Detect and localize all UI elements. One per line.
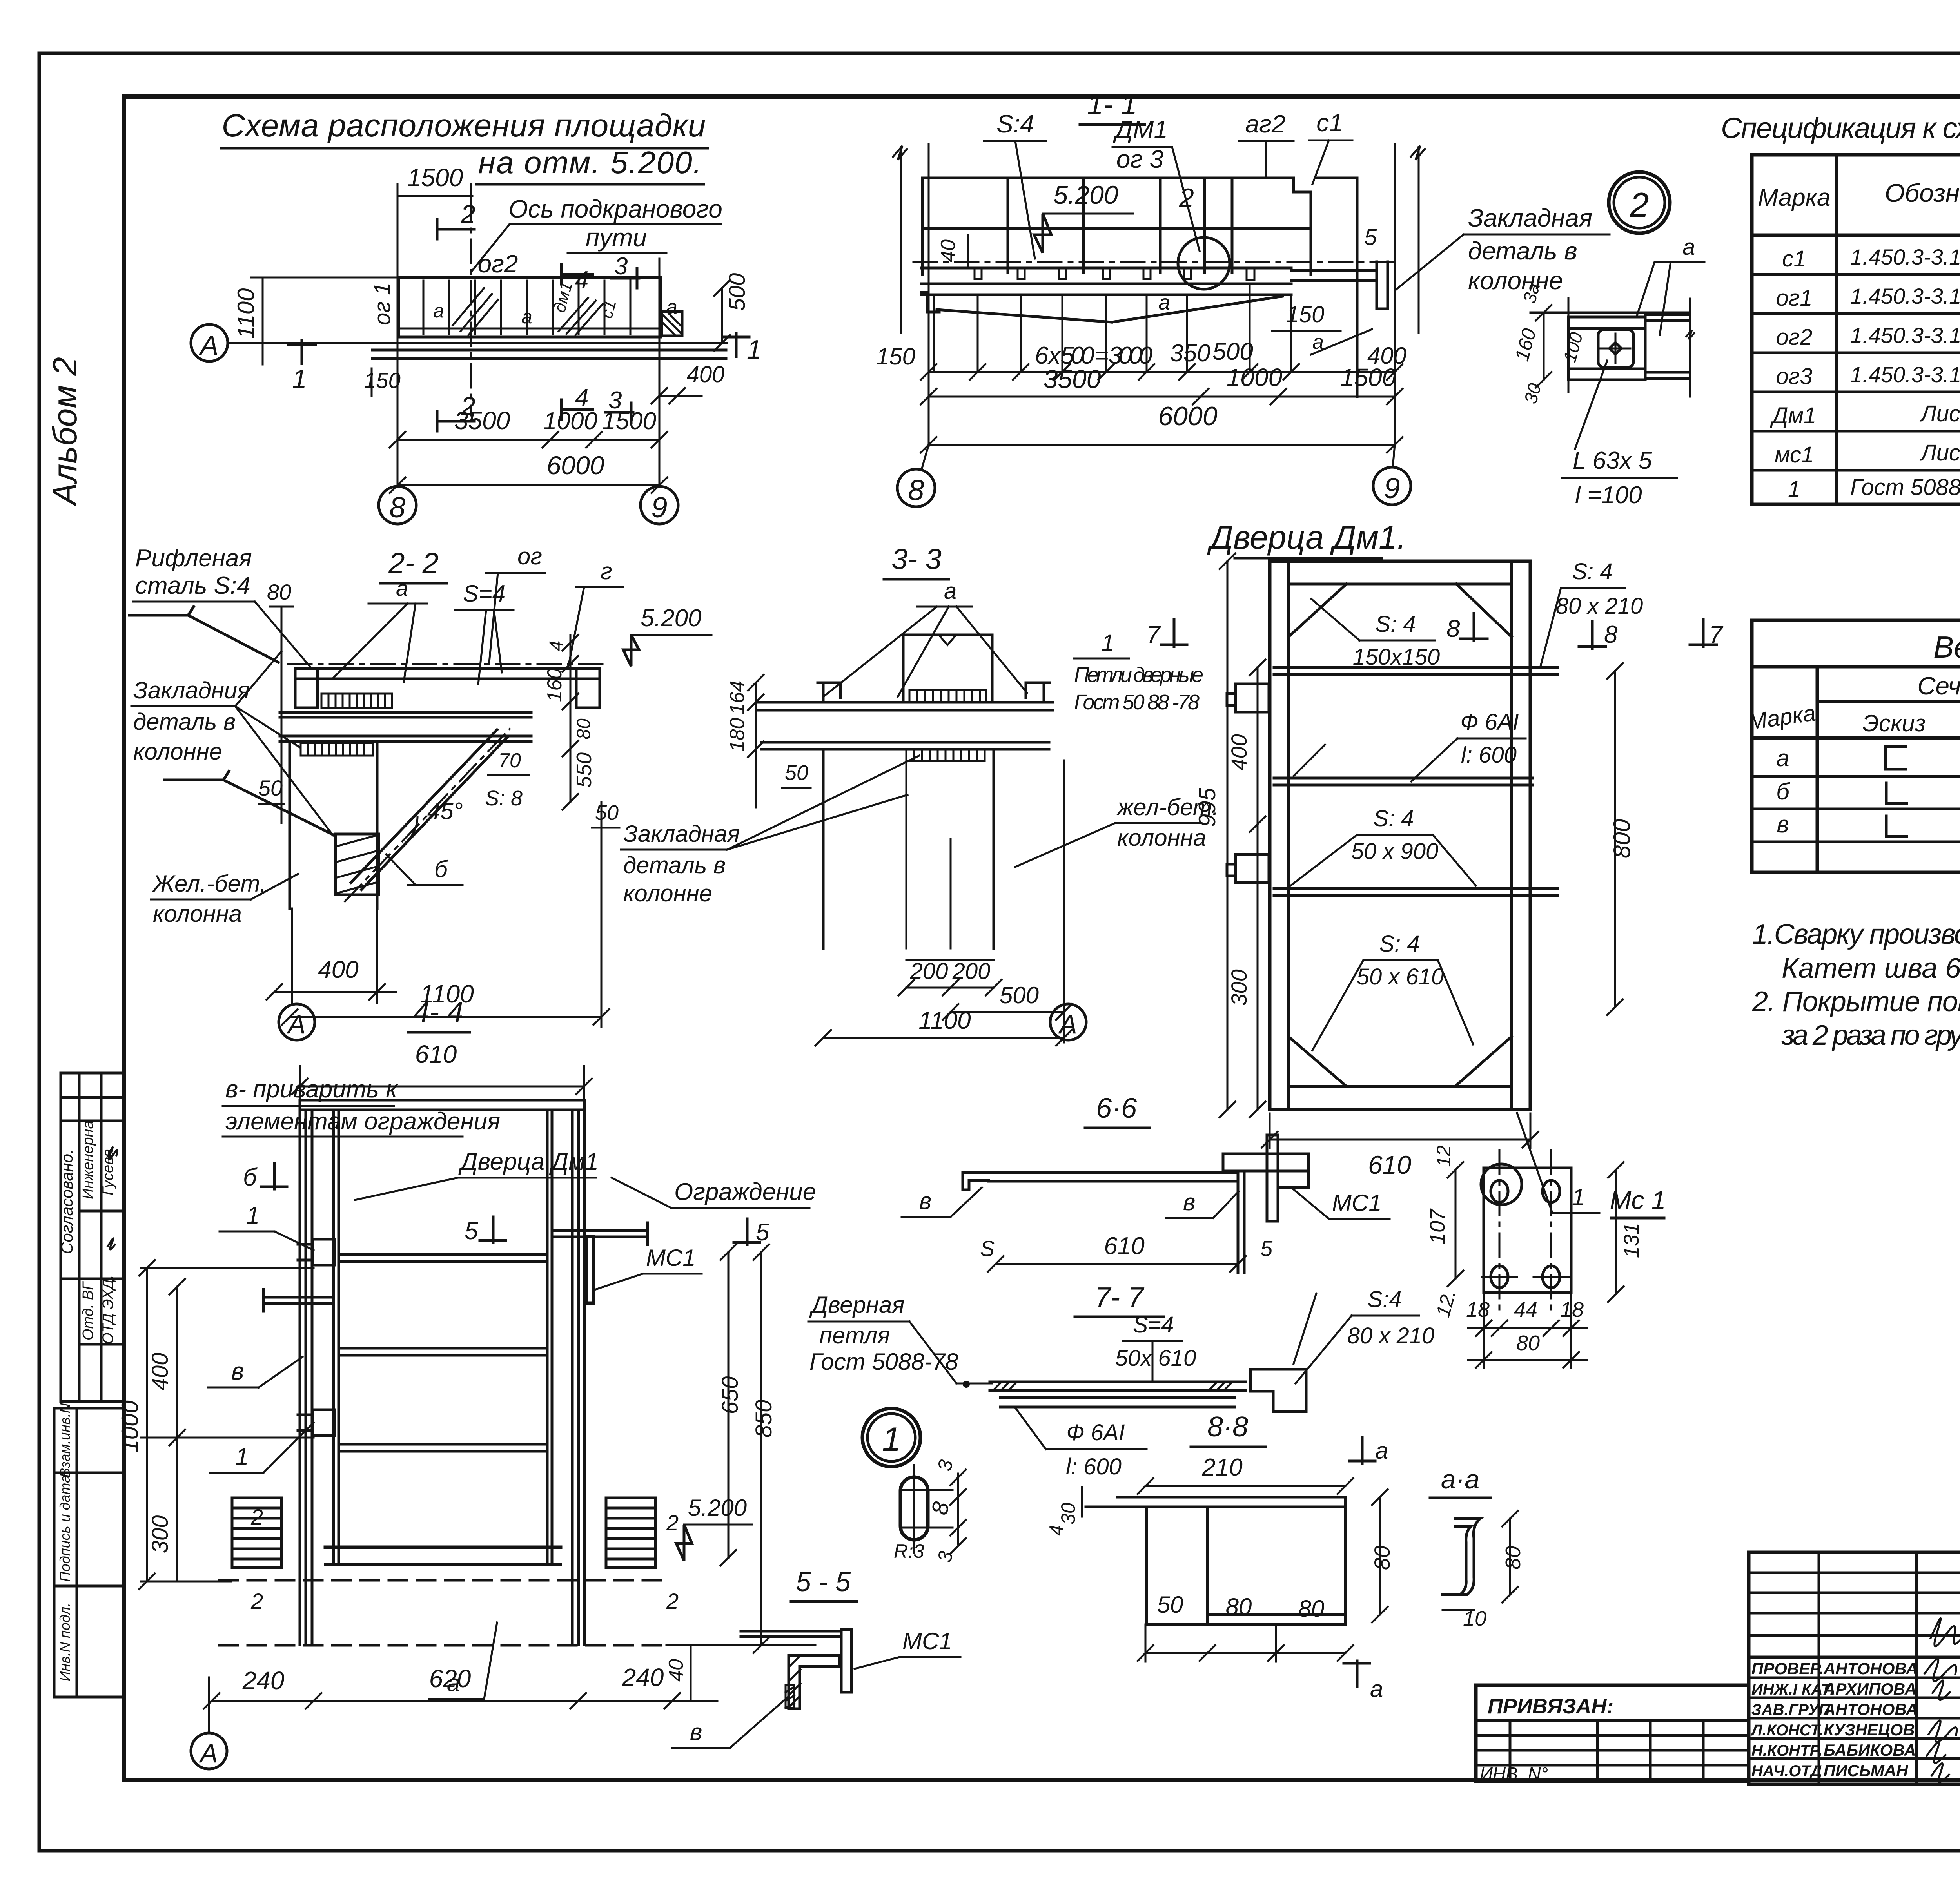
- svg-text:80: 80: [1516, 1331, 1540, 1355]
- hinge blocks: [313, 1239, 335, 1265]
- svg-text:НАЧ.ОТД: НАЧ.ОТД: [1751, 1762, 1822, 1780]
- svg-text:Ведомость элементов: Ведомость элементов: [1933, 630, 1960, 664]
- signatures: [1925, 1618, 1960, 1782]
- dim 107 left: [1455, 1170, 1457, 1278]
- svg-text:1.Сварку производить электро: 1.Сварку производить электродами Э42 Гос…: [1752, 919, 1960, 950]
- crane beam lines below platform: [372, 349, 726, 352]
- svg-text:Ось подкранового: Ось подкранового: [508, 195, 722, 223]
- svg-text:610: 610: [1104, 1233, 1144, 1260]
- 6-6 bottom dim 610: [996, 1263, 1238, 1265]
- right edge vertical: [1237, 1173, 1240, 1273]
- section mark a top: [1349, 1438, 1375, 1463]
- axis 9 riser: [1394, 144, 1396, 446]
- svg-text:6·6: 6·6: [1096, 1093, 1137, 1124]
- section flag 2 lower: [437, 412, 474, 431]
- svg-text:Лист 9: Лист 9: [1919, 440, 1960, 466]
- a-a dims: [1509, 1519, 1511, 1595]
- svg-text:131: 131: [1620, 1223, 1643, 1258]
- svg-text:5: 5: [465, 1218, 478, 1245]
- svg-text:5: 5: [756, 1219, 769, 1246]
- svg-text:50: 50: [258, 776, 283, 800]
- left post: [299, 1100, 301, 1644]
- embedded concrete block hatched: [336, 834, 379, 895]
- svg-text:4- 4: 4- 4: [413, 996, 463, 1028]
- svg-text:Жел.-бет.: Жел.-бет.: [152, 870, 266, 897]
- svg-text:3- 3: 3- 3: [891, 543, 942, 575]
- svg-text:650: 650: [717, 1376, 743, 1414]
- svg-text:800: 800: [1609, 819, 1635, 858]
- axis 8 riser: [928, 144, 930, 446]
- svg-text:350: 350: [1170, 340, 1210, 367]
- svg-text:50 х 900: 50 х 900: [1351, 839, 1439, 864]
- leaf bottom sill: [325, 1546, 561, 1549]
- svg-text:Гост 5088 -78: Гост 5088 -78: [1850, 475, 1960, 500]
- svg-text:50: 50: [595, 801, 619, 825]
- svg-text:мс1: мс1: [1775, 442, 1814, 468]
- svg-text:Мс 1: Мс 1: [1610, 1186, 1666, 1215]
- svg-text:9: 9: [1384, 472, 1400, 504]
- holes: [1491, 1266, 1508, 1288]
- svg-text:ог3: ог3: [1776, 364, 1812, 389]
- detail circle callout on top hole: [1481, 1164, 1522, 1205]
- svg-text:г: г: [601, 558, 612, 584]
- svg-text:ог2: ог2: [478, 250, 518, 278]
- dims 200 200: [906, 959, 994, 961]
- svg-text:Рифленая: Рифленая: [135, 545, 252, 572]
- dim 1500: [397, 195, 472, 197]
- plate with bolt: [1598, 330, 1633, 367]
- svg-text:18: 18: [1466, 1298, 1490, 1322]
- svg-text:80: 80: [1298, 1595, 1325, 1622]
- MC1 connector of 6-6: [1267, 1135, 1278, 1221]
- svg-text:1: 1: [235, 1443, 249, 1470]
- section flags 4 and 3 upper: [561, 265, 593, 284]
- svg-text:2: 2: [1630, 185, 1649, 224]
- section mark 7 top: [1161, 619, 1187, 647]
- svg-text:l: 600: l: 600: [1461, 742, 1517, 768]
- svg-text:44: 44: [1514, 1298, 1537, 1322]
- dim chain 3500 1000 1500: [397, 439, 659, 441]
- corner leader symbol top: [129, 607, 278, 662]
- svg-text:50: 50: [1157, 1592, 1183, 1618]
- top hat post: [902, 635, 905, 702]
- svg-text:30: 30: [1057, 1503, 1079, 1525]
- bottom dim 610: [1270, 1139, 1530, 1141]
- deck band: [295, 667, 600, 670]
- svg-text:5.200: 5.200: [1053, 180, 1118, 209]
- svg-text:колонна: колонна: [153, 901, 242, 927]
- corner leader symbol mid: [165, 771, 333, 835]
- dim 1100 vertical: [262, 277, 264, 364]
- svg-text:с1: с1: [1316, 109, 1343, 137]
- axis A line: [227, 342, 727, 344]
- door leaf stiles: [332, 1110, 335, 1564]
- svg-text:а: а: [1158, 291, 1170, 314]
- svg-text:400: 400: [318, 956, 358, 983]
- svg-text:70: 70: [498, 749, 521, 772]
- detail bubble 1: [862, 1409, 920, 1467]
- svg-text:3500: 3500: [1044, 364, 1101, 393]
- bottom dim 6000: [929, 444, 1395, 446]
- svg-text:АНТОНОВА: АНТОНОВА: [1823, 1700, 1918, 1719]
- element list table: [1752, 620, 1960, 872]
- left C end: [921, 292, 939, 312]
- svg-text:8·8: 8·8: [1207, 1411, 1248, 1443]
- dim 500 right vertical: [721, 288, 723, 343]
- svg-text:1000: 1000: [543, 408, 597, 435]
- svg-text:400: 400: [687, 362, 725, 387]
- svg-text:45°: 45°: [427, 798, 463, 824]
- svg-text:164: 164: [726, 681, 749, 715]
- svg-text:ИНЖ.I КАТ.: ИНЖ.I КАТ.: [1751, 1681, 1835, 1698]
- grid bubble 8: [379, 486, 416, 524]
- svg-text:l =100: l =100: [1575, 482, 1642, 509]
- svg-text:Альбом 2: Альбом 2: [46, 357, 84, 507]
- column verticals: [289, 741, 291, 908]
- svg-text:4: 4: [575, 266, 588, 294]
- svg-text:БАБИКОВА: БАБИКОВА: [1824, 1741, 1916, 1759]
- svg-text:150: 150: [876, 343, 915, 370]
- grid bubble A: [191, 324, 228, 361]
- svg-text:5: 5: [1364, 225, 1377, 250]
- svg-text:R:3: R:3: [894, 1540, 924, 1562]
- svg-text:а: а: [1682, 234, 1695, 260]
- right dim 850: [760, 1252, 762, 1645]
- Z profile: [1443, 1519, 1480, 1595]
- 8-8 bottom dims: [1145, 1652, 1345, 1654]
- left C end 3-3: [818, 683, 840, 702]
- hatch ends: [994, 1383, 1232, 1390]
- svg-text:а: а: [666, 296, 677, 318]
- bottom dim 80: [1468, 1359, 1587, 1361]
- svg-text:5.200: 5.200: [641, 605, 701, 632]
- svg-text:пути: пути: [586, 223, 647, 252]
- hinge bar 2: [1274, 777, 1533, 780]
- svg-text:колонна: колонна: [1117, 825, 1206, 851]
- leader to crane axis: [472, 224, 510, 270]
- svg-text:50х 610: 50х 610: [1115, 1345, 1196, 1371]
- door outer frame: [1270, 561, 1530, 1109]
- svg-text:Марка: Марка: [1758, 184, 1830, 211]
- grid bubble 9: [1373, 467, 1411, 505]
- deck band 3-3: [757, 701, 1053, 704]
- svg-text:1.450.3-3.1 5.1.0.1.0-: 1.450.3-3.1 5.1.0.1.0-: [1850, 284, 1960, 308]
- svg-text:S: 8: S: 8: [485, 787, 523, 810]
- svg-text:8: 8: [389, 491, 405, 524]
- svg-text:Катет шва 6 мм.: Катет шва 6 мм.: [1782, 953, 1960, 984]
- signature squiggles: [108, 1147, 118, 1160]
- dim 400 right: [659, 395, 702, 397]
- railing posts: [921, 178, 924, 274]
- svg-text:210: 210: [1201, 1454, 1242, 1481]
- svg-text:1100: 1100: [233, 288, 259, 339]
- svg-text:150х150: 150х150: [1353, 644, 1440, 670]
- svg-text:1.450.3-3.1 5.1.0.1.0-01: 1.450.3-3.1 5.1.0.1.0-01: [1850, 362, 1960, 387]
- railing top rail: [922, 177, 1294, 179]
- svg-text:Схема расположения площадки: Схема расположения площадки: [222, 108, 706, 143]
- svg-text:а: а: [396, 576, 408, 600]
- svg-text:Гост 5088-78: Гост 5088-78: [809, 1349, 958, 1375]
- svg-text:S: 4: S: 4: [1379, 931, 1419, 957]
- svg-text:в: в: [690, 1719, 702, 1745]
- c1 ladder stub at platform right: [662, 312, 682, 336]
- privyazan table: [1476, 1685, 1749, 1781]
- bottom dims of 2-2: [274, 991, 396, 993]
- svg-text:Закладная: Закладная: [623, 821, 740, 847]
- 5-5 top bar: [741, 1630, 840, 1633]
- right C end 3-3: [1026, 683, 1049, 702]
- svg-text:Н.КОНТР.: Н.КОНТР.: [1751, 1742, 1822, 1759]
- svg-text:S: S: [980, 1236, 995, 1261]
- svg-text:КУЗНЕЦОВ: КУЗНЕЦОВ: [1824, 1720, 1915, 1739]
- svg-text:ог: ог: [517, 543, 542, 569]
- svg-text:400: 400: [1227, 734, 1251, 770]
- svg-text:ог 3: ог 3: [1116, 145, 1164, 173]
- section mark 1 right: [723, 333, 749, 357]
- svg-text:7: 7: [1147, 621, 1161, 648]
- hatch patch left: [453, 288, 498, 335]
- deck dash-dot top line: [913, 261, 1396, 263]
- svg-text:4: 4: [575, 384, 588, 411]
- dim 6000: [397, 484, 659, 486]
- right dim column 160/4: [570, 635, 572, 802]
- svg-text:Согласовано.: Согласовано.: [58, 1149, 76, 1254]
- svg-text:7: 7: [1709, 621, 1724, 648]
- top rail of assembly: [300, 1099, 584, 1102]
- svg-text:50 х 610: 50 х 610: [1357, 964, 1444, 990]
- svg-text:1100: 1100: [918, 1007, 971, 1034]
- svg-text:8: 8: [1446, 615, 1460, 642]
- svg-text:Л.КОНСТ.: Л.КОНСТ.: [1750, 1722, 1824, 1739]
- svg-text:1: 1: [292, 364, 307, 394]
- svg-text:за 2 раза по грунтовке ГФ-: за 2 раза по грунтовке ГФ-021 Гост 25129…: [1781, 1020, 1960, 1051]
- svg-text:S:4: S:4: [1367, 1287, 1401, 1312]
- svg-text:80: 80: [1226, 1593, 1252, 1620]
- svg-text:ПРОВЕР.: ПРОВЕР.: [1751, 1659, 1824, 1678]
- svg-text:160: 160: [543, 668, 566, 702]
- slot detail: [900, 1477, 928, 1540]
- svg-text:аг2: аг2: [1245, 110, 1286, 138]
- svg-text:2. Покрытие поверхностей:масл: 2. Покрытие поверхностей:масляная краска…: [1752, 986, 1960, 1017]
- platform outline plan: [399, 277, 661, 337]
- svg-text:5 - 5: 5 - 5: [796, 1566, 851, 1597]
- svg-text:ог 1: ог 1: [370, 283, 395, 325]
- svg-text:1.450.3-3.1 3.1.0.1.0-01: 1.450.3-3.1 3.1.0.1.0-01: [1850, 245, 1960, 269]
- svg-text:а: а: [1776, 745, 1789, 771]
- svg-text:в: в: [1777, 811, 1789, 838]
- svg-text:Дверца Дм1.: Дверца Дм1.: [1207, 519, 1406, 556]
- stremyanka c1 vertical: [1356, 178, 1359, 397]
- svg-text:а: а: [944, 578, 956, 604]
- ribbed comb on deck: [321, 694, 392, 708]
- svg-text:1000: 1000: [1227, 363, 1283, 392]
- dimension droppers: [934, 286, 1291, 372]
- svg-text:80: 80: [267, 580, 291, 604]
- support beam under deck: [280, 711, 531, 714]
- svg-text:2: 2: [1179, 183, 1194, 213]
- axis line and bubble A 3-3: [1063, 760, 1065, 1042]
- deck right thin extension: [1291, 269, 1377, 272]
- svg-text:1.450.3-3.1 5.1.0.1.0-11: 1.450.3-3.1 5.1.0.1.0-11: [1850, 323, 1960, 348]
- svg-text:4: 4: [1045, 1525, 1067, 1536]
- grid bubble A 4-4: [208, 1677, 210, 1732]
- left C channel of deck: [295, 669, 318, 708]
- svg-text:400: 400: [1367, 343, 1406, 369]
- svg-text:80 х 210: 80 х 210: [1347, 1323, 1435, 1349]
- hinge bar 3: [1274, 887, 1557, 890]
- main title block frame: [1749, 1552, 1960, 1784]
- svg-text:S=4: S=4: [463, 580, 505, 607]
- section marks 5: [480, 1217, 506, 1243]
- 8-8 right dim 80: [1379, 1497, 1381, 1615]
- svg-text:80: 80: [1501, 1546, 1525, 1570]
- svg-text:150: 150: [364, 368, 400, 393]
- svg-text:МС1: МС1: [646, 1245, 696, 1271]
- svg-text:колонне: колонне: [623, 880, 712, 906]
- svg-text:50: 50: [785, 761, 808, 785]
- svg-text:9: 9: [651, 491, 667, 524]
- svg-text:АРХИПОВА: АРХИПОВА: [1823, 1680, 1916, 1698]
- left dim 400: [176, 1287, 178, 1438]
- svg-text:2: 2: [460, 199, 475, 229]
- svg-text:l: 600: l: 600: [1066, 1454, 1122, 1479]
- grid bubble 9: [641, 486, 678, 524]
- platform posts: [423, 281, 425, 334]
- svg-text:1: 1: [1788, 477, 1800, 502]
- hatch patch right: [559, 298, 603, 335]
- 5-5 vertical plate: [841, 1630, 851, 1692]
- svg-text:Лист 9: Лист 9: [1919, 401, 1960, 426]
- svg-text:ОТД ЭХД.: ОТД ЭХД.: [100, 1275, 116, 1344]
- svg-text:сталь S:4: сталь S:4: [135, 572, 250, 599]
- leader and label L63x5: [1575, 361, 1607, 449]
- gusset diagonals under deck: [937, 310, 1112, 322]
- railing mid rail: [922, 227, 1311, 230]
- column 3-3: [822, 749, 825, 948]
- svg-text:12: 12: [1433, 1145, 1455, 1167]
- svg-text:80: 80: [573, 718, 594, 740]
- dim risers: [1568, 298, 1570, 392]
- svg-text:8: 8: [908, 474, 924, 506]
- svg-text:40: 40: [937, 239, 960, 262]
- svg-text:А: А: [199, 330, 219, 361]
- svg-text:610: 610: [1368, 1150, 1411, 1179]
- platform deck band: [921, 267, 1291, 270]
- right dim riser with break: [1418, 147, 1420, 333]
- svg-text:L 63х 5: L 63х 5: [1573, 447, 1652, 474]
- svg-text:620: 620: [429, 1664, 471, 1693]
- svg-text:а: а: [433, 300, 444, 322]
- svg-text:850: 850: [751, 1400, 777, 1438]
- right dim 650: [728, 1252, 730, 1558]
- svg-text:4: 4: [546, 641, 567, 651]
- svg-text:3: 3: [608, 387, 622, 414]
- dashed floor lines: [220, 1579, 666, 1582]
- svg-text:3: 3: [614, 253, 628, 280]
- svg-text:деталь в: деталь в: [133, 709, 236, 735]
- corner gussets: [1289, 584, 1347, 637]
- right C channel of deck: [576, 669, 600, 708]
- svg-text:Взам.инв.N: Взам.инв.N: [57, 1403, 73, 1477]
- door stiles: [1287, 561, 1290, 1109]
- name rows: [1749, 1677, 1960, 1679]
- bottom dims 18 44 18: [1468, 1327, 1587, 1329]
- svg-text:550: 550: [572, 752, 596, 788]
- comb under deck 3-3: [906, 749, 985, 761]
- right dim 800: [1614, 671, 1616, 1007]
- svg-text:S: 4: S: 4: [1375, 611, 1416, 637]
- detail circle on 1-1: [1178, 237, 1230, 289]
- svg-text:А: А: [198, 1738, 218, 1768]
- left dim riser with break: [900, 147, 902, 333]
- left dim 300: [176, 1438, 178, 1581]
- svg-text:400: 400: [147, 1353, 173, 1391]
- MC1 connector plate on right post: [586, 1236, 593, 1303]
- svg-text:Инженерна: Инженерна: [80, 1120, 96, 1199]
- svg-text:5: 5: [1260, 1236, 1273, 1261]
- beam continuation right: [1645, 314, 1690, 316]
- svg-text:500: 500: [724, 273, 750, 311]
- svg-text:40: 40: [665, 1659, 688, 1682]
- svg-text:Подпись и дата: Подпись и дата: [57, 1475, 73, 1582]
- section mark a bottom: [1344, 1661, 1370, 1687]
- svg-text:колонне: колонне: [133, 738, 222, 765]
- svg-text:Инв.N подл.: Инв.N подл.: [57, 1603, 73, 1681]
- svg-text:S: 4: S: 4: [1373, 806, 1414, 831]
- svg-text:А: А: [1058, 1010, 1077, 1039]
- svg-text:1000: 1000: [117, 1400, 143, 1452]
- bottom dim row: [212, 1700, 672, 1702]
- section mark 1 left: [288, 340, 316, 364]
- svg-text:2: 2: [250, 1505, 263, 1529]
- bolt mark: [786, 1685, 794, 1708]
- hole center lines: [1499, 1150, 1501, 1313]
- svg-text:80 х 210: 80 х 210: [1556, 593, 1643, 619]
- svg-text:Обозначение: Обозначение: [1885, 178, 1960, 207]
- svg-text:2: 2: [250, 1589, 263, 1613]
- svg-text:610: 610: [415, 1040, 457, 1068]
- upper approval stamp block: [61, 1073, 124, 1401]
- section mark 8 left: [1461, 613, 1487, 641]
- svg-text:а·а: а·а: [1441, 1465, 1479, 1494]
- svg-text:деталь в: деталь в: [623, 852, 726, 878]
- ribbed comb 2: [301, 743, 373, 756]
- svg-text:МС1: МС1: [902, 1628, 952, 1654]
- svg-text:Ф 6АI: Ф 6АI: [1460, 709, 1519, 735]
- svg-text:б: б: [1776, 778, 1790, 805]
- svg-text:3500: 3500: [454, 406, 510, 435]
- svg-text:а: а: [1370, 1676, 1383, 1702]
- dim 131 right: [1615, 1170, 1617, 1294]
- svg-text:300: 300: [147, 1515, 173, 1554]
- svg-text:в: в: [919, 1188, 931, 1214]
- svg-text:1: 1: [1102, 630, 1114, 656]
- svg-text:элементам ограждения: элементам ограждения: [225, 1108, 500, 1135]
- svg-text:6000: 6000: [1158, 401, 1217, 431]
- dim 40 bottom right: [690, 1645, 692, 1701]
- left dim 995: [1227, 561, 1229, 1109]
- leaf bars: [339, 1253, 547, 1256]
- right C end: [1377, 262, 1388, 309]
- svg-text:б: б: [243, 1164, 258, 1191]
- bottom dim chain row 2: [929, 396, 1395, 398]
- svg-text:Отд. ВГ: Отд. ВГ: [80, 1281, 96, 1340]
- right post: [571, 1110, 574, 1644]
- svg-text:240: 240: [242, 1666, 285, 1695]
- comb on deck 3-3: [909, 690, 986, 702]
- svg-text:200: 200: [910, 959, 948, 984]
- svg-text:Закладния: Закладния: [133, 677, 250, 703]
